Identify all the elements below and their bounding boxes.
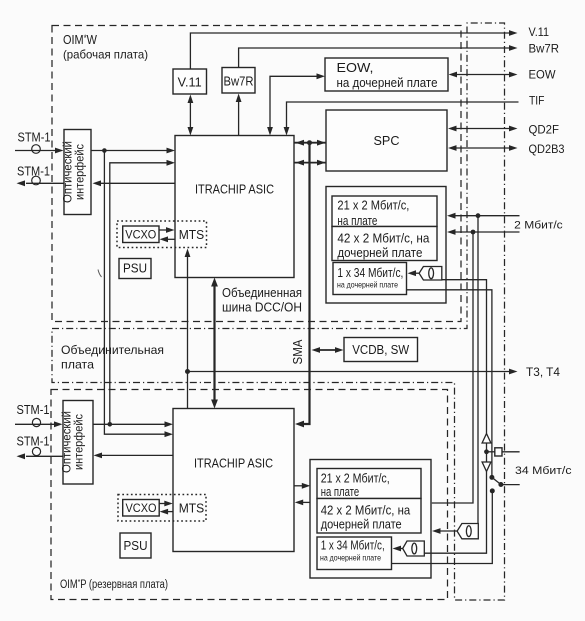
svg-text:OIM*P (резервная плата): OIM*P (резервная плата)	[60, 578, 168, 591]
connector circle STM-1 in bottom	[32, 418, 40, 426]
block optical interface 1 (Оптический интерфейс)	[64, 130, 91, 215]
switch contact upper	[489, 475, 494, 480]
svg-text:Bw7R: Bw7R	[529, 44, 560, 56]
wire QD2F	[455, 128, 510, 130]
wire ASIC2 to tributary2	[294, 485, 304, 487]
wire 2Mbit upper	[454, 215, 520, 217]
wire Bw7R to ASIC1	[238, 99, 240, 136]
svg-text:2 Мбит/с: 2 Мбит/с	[514, 219, 563, 231]
wire MTS to VCXO2	[167, 511, 173, 513]
block V.11	[173, 69, 207, 94]
scan artifact tick	[98, 270, 102, 278]
wire 2M branch X3 to unit2	[432, 232, 473, 503]
block 21x2 Mbit on-board 1	[332, 196, 437, 227]
wire EOW to edge	[455, 74, 510, 76]
wire STM-1 in top	[15, 150, 56, 152]
block 42x2 Mbit daughter 2	[317, 499, 421, 534]
svg-text:дочерней плате: дочерней плате	[337, 246, 422, 260]
svg-text:Объединительная: Объединительная	[61, 343, 164, 357]
svg-text:EOW: EOW	[529, 69, 556, 81]
svg-text:V.11: V.11	[529, 27, 550, 39]
svg-text:Объединенная: Объединенная	[222, 286, 302, 300]
box tributary unit 2 outer	[310, 460, 431, 579]
svg-text:интерфейс: интерфейс	[74, 414, 86, 470]
connector plug 2M external	[457, 524, 478, 539]
wire opt1 RX riser to ASIC2	[104, 151, 166, 435]
wire VCXO2 to MTS	[159, 503, 166, 505]
wire TIF	[287, 102, 519, 129]
wire X1 middle	[486, 443, 488, 462]
svg-text:(рабочая плата): (рабочая плата)	[63, 48, 148, 62]
svg-text:интерфейс: интерфейс	[75, 144, 87, 200]
svg-text:на дочерней плате: на дочерней плате	[337, 280, 398, 290]
block VCDB, SW	[344, 338, 418, 362]
svg-text:PSU: PSU	[124, 539, 148, 553]
amplifier triangle up	[482, 434, 491, 444]
svg-text:1 x 34 Мбит/с,: 1 x 34 Мбит/с,	[337, 266, 403, 280]
wire plug to 1x34 box 2	[400, 548, 403, 550]
block ITRACHIP ASIC 2	[173, 409, 294, 552]
svg-text:T3, T4: T3, T4	[526, 367, 561, 379]
block EOW on daughter board	[325, 58, 448, 91]
connector plug 34M top	[419, 267, 442, 281]
svg-text:шина DCC/OH: шина DCC/OH	[222, 301, 302, 315]
svg-text:ITRACHIP ASIC: ITRACHIP ASIC	[195, 182, 274, 197]
svg-text:SMA: SMA	[291, 339, 305, 365]
svg-text:EOW,: EOW,	[337, 61, 374, 75]
switch blade	[492, 477, 501, 484]
svg-text:на дочерней плате: на дочерней плате	[320, 553, 381, 563]
dotted box VCXO+MTS 2	[118, 495, 206, 522]
block PSU 2	[120, 533, 151, 558]
box tributary unit 1 outer	[326, 187, 446, 304]
wire opt2 RX riser to ASIC1	[110, 163, 168, 425]
block 42x2 Mbit daughter 1	[332, 227, 437, 261]
svg-text:VCXO: VCXO	[126, 503, 157, 515]
wire tributary2 to ASIC2	[302, 501, 310, 503]
wire X1 lower to plug B	[425, 472, 487, 554]
wire QD2B3	[455, 147, 510, 149]
svg-text:QD2B3: QD2B3	[529, 144, 565, 156]
wire 34M output X2b from unit2	[392, 491, 492, 564]
amplifier triangle down	[482, 462, 491, 472]
block ITRACHIP ASIC 1	[175, 136, 294, 278]
connector circle STM-1 out top	[32, 176, 41, 185]
connector circle STM-1 in top	[32, 145, 41, 154]
block SPC	[326, 110, 447, 171]
wire STM-1 out top	[26, 182, 64, 184]
wire ASIC1 TX to opt1	[100, 182, 175, 184]
OIM*W working-card dashed outline	[52, 26, 461, 322]
dotted box VCXO+MTS 1	[117, 221, 207, 248]
block PSU 1	[119, 259, 151, 279]
wire V.11 to edge connector V.11	[190, 33, 510, 69]
svg-text:34 Мбит/с: 34 Мбит/с	[515, 465, 572, 477]
svg-text:Bw7R: Bw7R	[224, 75, 254, 89]
svg-text:MTS: MTS	[179, 500, 205, 515]
OIM*P standby-card dashed outline	[51, 390, 448, 600]
svg-text:1 x 34 Мбит/с,: 1 x 34 Мбит/с,	[321, 538, 385, 552]
svg-text:OIM*W: OIM*W	[63, 33, 97, 47]
svg-text:на плате: на плате	[321, 485, 360, 499]
wire 2Mbit lower	[454, 231, 520, 233]
svg-text:VCDB, SW: VCDB, SW	[352, 343, 409, 357]
wire opt2 RX to ASIC2	[93, 423, 166, 425]
svg-text:дочерней плате: дочерней плате	[321, 518, 402, 532]
svg-text:STM-1: STM-1	[17, 434, 50, 449]
block 1x34 Mbit daughter 2	[317, 537, 392, 570]
wire 34M output X2a from unit1	[407, 290, 492, 478]
svg-text:QD2F: QD2F	[529, 125, 560, 137]
wire V.11 to ASIC1 (double arrow)	[189, 100, 191, 130]
wire VCXO1 to MTS	[159, 229, 167, 231]
wire opt1 RX to ASIC1	[91, 150, 168, 152]
connector circle STM-1 out bottom	[32, 447, 40, 455]
svg-text:SPC: SPC	[374, 133, 400, 148]
svg-text:42 x 2 Мбит/с, на: 42 x 2 Мбит/с, на	[321, 504, 411, 518]
svg-text:PSU: PSU	[123, 262, 147, 276]
svg-text:плата: плата	[61, 358, 94, 372]
svg-text:STM-1: STM-1	[17, 402, 50, 417]
svg-text:Оптический: Оптический	[63, 141, 75, 203]
svg-text:TIF: TIF	[529, 96, 545, 108]
svg-text:на дочерней плате: на дочерней плате	[337, 76, 438, 90]
wire ASIC1 to EOW	[270, 76, 318, 129]
svg-text:Оптический: Оптический	[62, 411, 74, 473]
wire ASIC1-SPC row1	[294, 142, 326, 144]
connector plug 34M bottom-internal	[403, 541, 425, 556]
svg-text:21 x 2 Мбит/с,: 21 x 2 Мбит/с,	[321, 471, 390, 485]
switch contact lower	[490, 488, 495, 493]
svg-text:STM-1: STM-1	[17, 164, 50, 179]
backplane plate boundary (dash-dot band + right column)	[52, 23, 505, 600]
svg-text:VCXO: VCXO	[125, 230, 156, 242]
connector square 34M input	[495, 448, 502, 456]
wire ASIC2 TX to opt2	[101, 454, 173, 456]
wire STM-1 in bottom	[15, 423, 55, 425]
block optical interface 2 (Оптический интерфейс)	[63, 401, 93, 485]
svg-text:V.11: V.11	[178, 76, 202, 90]
svg-text:ITRACHIP ASIC: ITRACHIP ASIC	[194, 456, 273, 471]
wire plug A to tributary2	[439, 530, 457, 532]
svg-text:MTS: MTS	[179, 227, 205, 242]
wire plug to 1x34 box 1	[415, 272, 419, 274]
svg-text:STM-1: STM-1	[18, 130, 51, 145]
block 21x2 Mbit on-board 2	[317, 469, 421, 499]
bus SMA	[302, 143, 310, 424]
block Bw7R	[222, 68, 255, 94]
svg-text:42 x 2 Мбит/с, на: 42 x 2 Мбит/с, на	[337, 232, 429, 246]
block 1x34 Mbit daughter 1	[333, 263, 407, 295]
svg-text:21 x 2 Мбит/с,: 21 x 2 Мбит/с,	[337, 199, 409, 213]
block VCXO 1	[123, 226, 159, 243]
wire 2M branch X4 to plug A	[477, 216, 479, 524]
wire 34M output stub	[501, 484, 520, 486]
wire MTS to VCXO1	[167, 238, 175, 240]
bus DCC/OH between ASICs	[213, 283, 215, 403]
block VCXO 2	[123, 500, 160, 517]
wire MTS timing bus	[187, 256, 189, 372]
wire 34M input line X1 upper	[442, 280, 487, 434]
wire SMA to VCDB	[317, 349, 337, 351]
wire Bw7R to edge connector	[239, 48, 510, 68]
wire T3,T4	[188, 371, 511, 373]
wire STM-1 out bottom	[26, 455, 63, 457]
wire ASIC1-SPC row2	[294, 162, 326, 164]
